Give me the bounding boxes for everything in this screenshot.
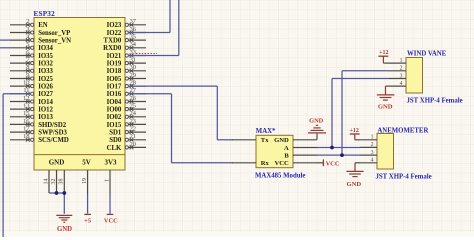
- svg-text:IO04: IO04: [107, 99, 122, 106]
- svg-text:B: B: [284, 153, 289, 160]
- svg-text:GND: GND: [378, 103, 393, 110]
- svg-text:10: 10: [23, 80, 29, 87]
- ground symbol GND under anemometer pin4: [346, 163, 363, 188]
- ESP32 left pin 12 IO14: [10, 95, 54, 106]
- ESP32 right pin 26 IO04: [107, 95, 146, 106]
- wire IO34 to left edge: [0, 47, 10, 49]
- svg-text:IO12: IO12: [38, 107, 53, 114]
- ESP32 right pin 33 IO21: [107, 49, 146, 60]
- svg-text:24: 24: [130, 110, 137, 117]
- svg-text:IO16: IO16: [107, 91, 122, 98]
- svg-text:EN: EN: [38, 22, 48, 29]
- svg-text:Sensor_VN: Sensor_VN: [38, 38, 71, 45]
- svg-text:2: 2: [400, 66, 403, 72]
- svg-text:GND: GND: [49, 158, 65, 166]
- ESP32 left pin 13 IO12: [10, 103, 54, 114]
- wire IO27 net: left then down to bottom edge: [3, 94, 31, 237]
- ESP32 right pin 20 CLK: [107, 141, 146, 152]
- ESP32 left pin 17 SWP/SD3: [10, 126, 68, 137]
- svg-text:32: 32: [51, 179, 57, 185]
- ESP32 right pin 36 IO22: [107, 26, 146, 37]
- MAX485 pin B: [284, 153, 317, 160]
- ESP32 right pin 34 RXD0: [103, 41, 146, 52]
- svg-text:3: 3: [371, 150, 374, 156]
- svg-text:5: 5: [26, 41, 29, 48]
- wire net B (MAX485 to anemometer pin3): [317, 154, 360, 156]
- ESP32 left pin 18 SCS/CMD: [10, 133, 69, 144]
- svg-text:Tx: Tx: [261, 137, 269, 144]
- anemometer pin 4: [360, 158, 377, 164]
- ESP32 left pin 5 IO34: [10, 41, 54, 52]
- svg-text:+12: +12: [349, 128, 358, 134]
- svg-text:5V: 5V: [82, 158, 91, 166]
- svg-text:12: 12: [23, 95, 29, 102]
- ESP32 left pin 15 IO13: [10, 110, 54, 121]
- ground symbol GND above MAX485 (inverted): [308, 118, 326, 133]
- svg-text:IO19: IO19: [107, 61, 122, 68]
- svg-text:JST XHP-4 Female: JST XHP-4 Female: [376, 174, 432, 181]
- svg-text:16: 16: [23, 118, 29, 125]
- anemometer pin 2: [360, 142, 377, 148]
- wind vane pin 1: [389, 58, 406, 64]
- svg-text:IO25: IO25: [38, 76, 53, 83]
- svg-text:JST XHP-4 Female: JST XHP-4 Female: [407, 98, 463, 105]
- svg-text:37: 37: [130, 18, 137, 25]
- ESP32 bottom 5V pin 19: [82, 170, 88, 194]
- svg-text:19: 19: [82, 178, 88, 184]
- svg-text:SD1: SD1: [109, 130, 122, 137]
- svg-text:MAX*: MAX*: [256, 128, 276, 135]
- junction dot net B: [340, 153, 344, 157]
- wire net A (MAX485 to anemometer pin2): [317, 147, 360, 149]
- MAX485 module U2 body MAX*: [255, 128, 305, 179]
- ESP32 bottom power labels GND 5V 3V3: [49, 158, 117, 166]
- wind vane pin 4: [389, 81, 406, 87]
- svg-text:MAX485 Module: MAX485 Module: [255, 172, 305, 179]
- ESP32 right pin 24 IO02: [107, 110, 146, 121]
- svg-text:20: 20: [130, 141, 136, 148]
- ESP32 left pin 3 Sensor_VP: [10, 26, 70, 37]
- svg-text:31: 31: [130, 57, 136, 64]
- svg-text:29: 29: [130, 72, 136, 79]
- ESP32 right pin 21 SD0: [109, 133, 146, 144]
- svg-text:27: 27: [130, 87, 137, 94]
- wire IO22 net: right then up to top edge: [128, 0, 170, 33]
- wind vane pin 3: [389, 73, 406, 79]
- svg-text:IO18: IO18: [107, 68, 122, 75]
- wire 5V pin down: [87, 194, 89, 214]
- svg-text:1: 1: [400, 58, 403, 64]
- svg-text:IO00: IO00: [107, 107, 122, 114]
- svg-text:GND: GND: [57, 226, 72, 233]
- svg-text:26: 26: [130, 95, 136, 102]
- junction dot GND pin 32: [55, 191, 59, 195]
- ESP32 bottom GND pin 38: [59, 170, 65, 193]
- svg-text:GND: GND: [274, 137, 289, 144]
- svg-text:SHD/SD2: SHD/SD2: [38, 122, 67, 129]
- svg-text:2: 2: [26, 18, 29, 25]
- svg-text:Rx: Rx: [261, 160, 270, 167]
- ESP32 left pin 6 IO35: [10, 49, 54, 60]
- svg-text:1: 1: [105, 179, 111, 182]
- svg-text:21: 21: [130, 133, 136, 140]
- svg-text:35: 35: [130, 34, 136, 41]
- wire wind vane pin2 down to net B: [341, 71, 343, 155]
- power port VCC under ESP32: [104, 214, 118, 224]
- MAX485 pin Tx: [232, 137, 269, 144]
- ESP32 right pin 30 IO18: [107, 64, 146, 75]
- power port VCC right of MAX485: [317, 159, 340, 167]
- svg-text:SWP/SD3: SWP/SD3: [38, 130, 67, 137]
- ground symbol GND under ESP32: [56, 215, 72, 233]
- connector J2 ANEMOMETER body: [376, 127, 432, 180]
- svg-text:13: 13: [23, 103, 29, 110]
- power port +5: [84, 214, 91, 224]
- svg-text:IO14: IO14: [38, 99, 53, 106]
- svg-text:ESP32: ESP32: [34, 10, 56, 18]
- ground symbol GND under wind vane pin4: [377, 86, 395, 110]
- svg-text:TXD0: TXD0: [104, 38, 122, 45]
- power port +12 above wind vane pin1: [378, 50, 389, 63]
- svg-text:SCS/CMD: SCS/CMD: [38, 137, 69, 144]
- ESP32 left pin 2 EN: [10, 18, 48, 29]
- anemometer pin 3: [360, 150, 377, 156]
- connector J1 WIND VANE body: [406, 51, 463, 105]
- svg-text:IO21: IO21: [107, 53, 122, 60]
- svg-text:IO17: IO17: [107, 84, 122, 91]
- svg-text:IO15: IO15: [107, 122, 122, 129]
- svg-text:1: 1: [371, 135, 374, 141]
- ESP32 module U1 body: [34, 10, 126, 170]
- svg-text:WIND VANE: WIND VANE: [407, 51, 447, 58]
- svg-text:15: 15: [23, 110, 29, 117]
- ERC marker red dashes on IO21 wire: [136, 53, 157, 55]
- wire wind vane pin2 left: [342, 70, 389, 72]
- svg-text:2: 2: [371, 142, 374, 148]
- wire IO17 to MAX485 Tx: [128, 86, 233, 140]
- svg-text:11: 11: [23, 87, 29, 94]
- svg-text:IO22: IO22: [107, 30, 122, 37]
- svg-text:34: 34: [130, 41, 137, 48]
- junction dot net A: [330, 146, 334, 150]
- ESP32 right pin 28 IO17: [107, 80, 146, 91]
- svg-text:IO34: IO34: [38, 45, 53, 52]
- svg-text:GND: GND: [346, 181, 361, 188]
- svg-text:IO35: IO35: [38, 53, 53, 60]
- svg-text:+12: +12: [379, 50, 388, 56]
- svg-text:18: 18: [23, 133, 29, 140]
- wire Sensor_VN to left edge: [0, 39, 10, 41]
- svg-text:36: 36: [130, 26, 136, 33]
- svg-text:IO23: IO23: [107, 22, 122, 29]
- svg-text:38: 38: [59, 179, 65, 185]
- svg-text:IO02: IO02: [107, 114, 122, 121]
- svg-text:IO13: IO13: [38, 114, 53, 121]
- ESP32 bottom 3V3 pin 1: [105, 170, 111, 194]
- svg-text:4: 4: [371, 158, 374, 164]
- ESP32 left pin 4 Sensor_VN: [10, 34, 71, 45]
- wire MAX485 GND up: [316, 134, 318, 140]
- MAX485 pin VCC: [275, 160, 317, 167]
- svg-text:25: 25: [130, 103, 136, 110]
- svg-text:IO33: IO33: [38, 68, 53, 75]
- wind vane pin 2: [389, 66, 406, 72]
- svg-text:3V3: 3V3: [104, 158, 117, 166]
- svg-text:23: 23: [130, 118, 136, 125]
- svg-text:SD0: SD0: [109, 137, 122, 144]
- svg-text:VCC: VCC: [326, 160, 340, 167]
- ESP32 right pin 37 IO23: [107, 18, 146, 29]
- wire wind vane pin3 down to net A: [331, 79, 333, 148]
- svg-text:9: 9: [26, 72, 29, 79]
- svg-text:IO32: IO32: [38, 61, 53, 68]
- MAX485 pin Rx: [232, 160, 270, 167]
- svg-text:3: 3: [26, 26, 29, 33]
- ESP32 right pin 23 IO15: [107, 118, 146, 129]
- ESP32 right pin 22 SD1: [109, 126, 146, 137]
- ESP32 left pin 8 IO33: [10, 64, 54, 75]
- svg-text:30: 30: [130, 64, 136, 71]
- wire 3V3 pin down: [109, 194, 111, 214]
- power port +12 above anemometer pin1: [349, 128, 360, 140]
- svg-text:A: A: [284, 145, 289, 152]
- ESP32 left pin 16 SHD/SD2: [10, 118, 67, 129]
- svg-text:IO27: IO27: [38, 91, 53, 98]
- wire ESP32 GND bus: [49, 193, 64, 214]
- svg-text:IO05: IO05: [107, 76, 122, 83]
- ESP32 right pin 29 IO05: [107, 72, 146, 83]
- svg-text:14: 14: [43, 179, 49, 185]
- wire wind vane pin3 left: [332, 78, 389, 80]
- ESP32 bottom GND pin 32: [51, 170, 57, 193]
- ESP32 left pin 10 IO26: [10, 80, 54, 91]
- svg-text:VCC: VCC: [104, 218, 118, 225]
- ESP32 right pin 27 IO16: [107, 87, 146, 98]
- svg-text:ANEMOMETER: ANEMOMETER: [377, 127, 428, 134]
- MAX485 pin A: [284, 145, 317, 152]
- wire IO16 to MAX485 Rx: [128, 94, 233, 163]
- wire IO21 net: right then up to top edge: [128, 0, 179, 56]
- svg-text:+5: +5: [84, 218, 91, 225]
- svg-text:22: 22: [130, 126, 136, 133]
- svg-text:RXD0: RXD0: [103, 45, 122, 52]
- ESP32 left pin 11 IO27: [10, 87, 54, 98]
- svg-text:CLK: CLK: [107, 145, 122, 152]
- junction dot GND pin 38: [62, 191, 66, 195]
- svg-text:3: 3: [400, 73, 403, 79]
- ESP32 left pin 7 IO32: [10, 57, 54, 68]
- ESP32 bottom GND pin 14: [43, 170, 49, 193]
- svg-text:4: 4: [400, 81, 403, 87]
- svg-text:6: 6: [26, 49, 29, 56]
- svg-text:GND: GND: [309, 118, 324, 125]
- svg-text:8: 8: [26, 64, 29, 71]
- svg-text:Sensor_VP: Sensor_VP: [38, 30, 70, 37]
- ESP32 right pin 35 TXD0: [104, 34, 146, 45]
- svg-text:28: 28: [130, 80, 136, 87]
- svg-text:33: 33: [130, 49, 136, 56]
- ESP32 right pin 25 IO00: [107, 103, 146, 114]
- ESP32 right pin 31 IO19: [107, 57, 146, 68]
- svg-text:VCC: VCC: [275, 160, 290, 167]
- ESP32 left pin 9 IO25: [10, 72, 54, 83]
- svg-text:17: 17: [23, 126, 30, 133]
- MAX485 pin GND: [274, 137, 317, 144]
- svg-text:IO26: IO26: [38, 84, 53, 91]
- anemometer pin 1: [360, 135, 377, 141]
